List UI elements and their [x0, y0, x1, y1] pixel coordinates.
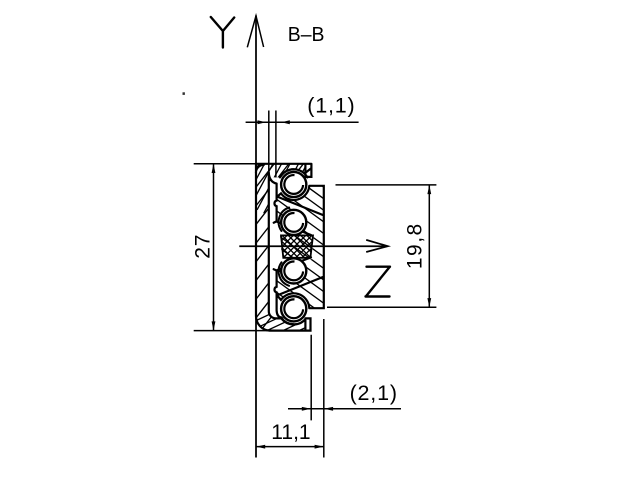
svg-text:(1,1): (1,1)	[307, 94, 355, 118]
svg-text:19,8: 19,8	[403, 222, 426, 269]
svg-text:(2,1): (2,1)	[350, 381, 398, 405]
svg-text:27: 27	[192, 234, 215, 259]
svg-text:11,1: 11,1	[271, 421, 310, 444]
svg-text:B–B: B–B	[288, 24, 325, 46]
